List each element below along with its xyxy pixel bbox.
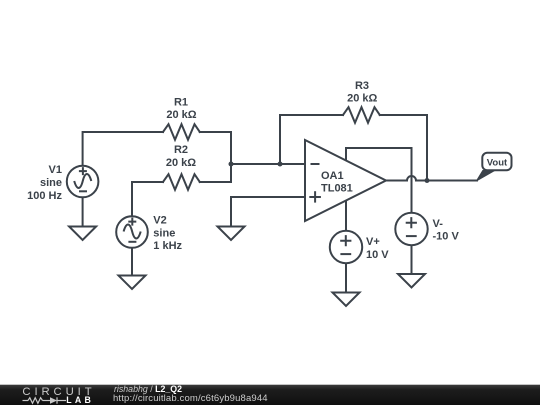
svg-text:OA1: OA1 bbox=[321, 170, 344, 182]
svg-text:V+: V+ bbox=[366, 236, 380, 248]
svg-text:LAB: LAB bbox=[66, 395, 94, 405]
svg-text:TL081: TL081 bbox=[321, 183, 353, 195]
svg-text:Vout: Vout bbox=[487, 158, 508, 169]
svg-text:V2: V2 bbox=[153, 215, 166, 227]
svg-text:V-: V- bbox=[433, 218, 444, 230]
svg-text:1 kHz: 1 kHz bbox=[153, 240, 182, 252]
svg-text:100 Hz: 100 Hz bbox=[27, 190, 62, 202]
svg-text:20 kΩ: 20 kΩ bbox=[166, 109, 196, 121]
svg-text:sine: sine bbox=[40, 177, 62, 189]
svg-text:R2: R2 bbox=[174, 144, 188, 156]
svg-text:http://circuitlab.com/c6t6yb9u: http://circuitlab.com/c6t6yb9u8a944 bbox=[113, 393, 268, 404]
svg-text:-10 V: -10 V bbox=[433, 231, 460, 243]
svg-text:20 kΩ: 20 kΩ bbox=[166, 157, 196, 169]
svg-text:10 V: 10 V bbox=[366, 249, 389, 261]
svg-text:V1: V1 bbox=[49, 164, 62, 176]
svg-text:sine: sine bbox=[153, 227, 175, 239]
svg-text:R3: R3 bbox=[355, 80, 369, 92]
svg-text:R1: R1 bbox=[174, 96, 188, 108]
svg-text:20 kΩ: 20 kΩ bbox=[347, 92, 377, 104]
